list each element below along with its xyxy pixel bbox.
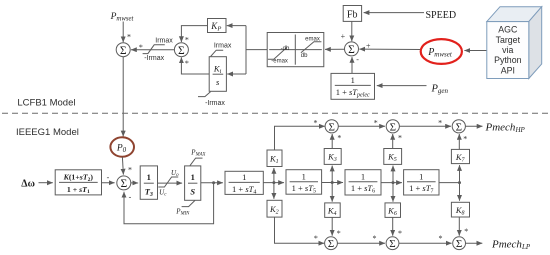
summer S4 — [345, 42, 359, 56]
svg-text:*: * — [185, 35, 189, 44]
summer S3 — [117, 176, 131, 190]
svg-text:1: 1 — [242, 172, 246, 182]
svg-text:Σ: Σ — [348, 44, 355, 56]
wire tap up into K5 — [392, 166, 394, 183]
svg-text:1 + sT4: 1 + sT4 — [232, 184, 256, 196]
wire Pmwset down into sum S1 — [122, 22, 124, 43]
svg-text:*: * — [139, 43, 143, 52]
svg-text:1: 1 — [147, 172, 151, 182]
svg-text:*: * — [185, 59, 189, 68]
svg-text:-: - — [107, 173, 110, 182]
wire Fb to S4 — [351, 21, 353, 41]
limit mark Irmax on integrator top — [211, 50, 224, 56]
block KP gain — [208, 19, 227, 33]
wire Pgen to Tpelec block — [377, 85, 427, 87]
svg-text:1: 1 — [351, 75, 355, 85]
limit mark PMAX — [190, 158, 203, 166]
block Fb — [343, 6, 361, 22]
wire K5 output up to HP summer 2 — [392, 134, 394, 149]
summer HP3 — [452, 120, 465, 134]
block K8 — [451, 202, 469, 217]
junction K3/K4 tap — [331, 181, 334, 184]
wire tap up into K3 — [331, 166, 333, 183]
svg-text:1 + sT7: 1 + sT7 — [409, 183, 433, 195]
junction K5/K6 tap — [392, 181, 395, 184]
svg-text:Σ: Σ — [328, 238, 334, 250]
wire delta-omega to lead-lag block — [39, 182, 53, 184]
svg-text:SPEED: SPEED — [426, 10, 457, 21]
svg-text:*: * — [463, 135, 467, 144]
svg-text:LCFB1 Model: LCFB1 Model — [17, 97, 75, 108]
block 1/(1+sTpelec) — [331, 73, 375, 99]
junction K7/K8 tap — [458, 181, 461, 184]
block 1/(1+sT6) — [345, 170, 381, 195]
wire T5 to T6 with K3/K4 tap — [322, 182, 343, 184]
svg-text:1 + sT1: 1 + sT1 — [67, 185, 90, 195]
svg-text:*: * — [398, 133, 402, 142]
wire P0 to sum S3 — [122, 157, 123, 175]
svg-text:Irmax: Irmax — [214, 42, 232, 49]
svg-text:Σ: Σ — [178, 45, 185, 57]
block K2 — [267, 200, 282, 217]
wire SPEED to Fb — [364, 12, 424, 14]
wire T7 to K7/K8 tap — [439, 182, 460, 184]
wire tap down into K6 — [392, 183, 394, 202]
svg-text:*: * — [438, 118, 442, 127]
wire lead-lag block to S3 — [102, 182, 115, 184]
wire K6 output down to LP summer 2 — [392, 217, 394, 235]
svg-text:-db: -db — [281, 46, 290, 52]
wire Tpelec block to S4 bottom — [351, 57, 353, 73]
block 1/(1+sT5) — [286, 170, 322, 195]
block 1/S integrator — [185, 166, 201, 200]
svg-text:via: via — [502, 45, 513, 55]
svg-text:+: + — [341, 32, 346, 41]
wire K2 output to LP summer 1 — [275, 217, 325, 243]
block 1/(1+sT4) — [225, 171, 263, 195]
svg-text:*: * — [337, 133, 341, 142]
svg-text:*: * — [439, 234, 443, 243]
svg-text:-: - — [129, 193, 132, 202]
summer LP1 — [325, 237, 338, 250]
svg-text:Σ: Σ — [456, 121, 462, 133]
wire HP2 to HP3 — [399, 125, 451, 127]
rate limiter Uo/Uc symbol — [158, 177, 178, 187]
block K5 — [384, 149, 402, 165]
svg-text:Target: Target — [496, 35, 521, 45]
wire HP3 to output PmechHP — [465, 125, 482, 127]
svg-text:Python: Python — [494, 55, 521, 65]
junction feedback tap — [212, 181, 215, 184]
summer HP2 — [386, 120, 399, 134]
svg-text:Δω: Δω — [21, 178, 35, 189]
wire tap down into K2 — [273, 183, 275, 199]
wire KP output to S2 top — [181, 26, 207, 42]
limiter Irmax symbol on wire — [143, 45, 165, 54]
svg-text:Fb: Fb — [347, 9, 358, 20]
block K7 — [451, 149, 469, 163]
svg-text:*: * — [314, 118, 318, 127]
svg-text:Σ: Σ — [390, 121, 396, 133]
wire K7 output up to HP summer 3 — [458, 134, 460, 149]
wire 1/T3 to integrator with rate limiter — [158, 182, 183, 184]
svg-text:Σ: Σ — [328, 121, 334, 133]
wire feedback from integrator output to S3 bottom — [124, 183, 214, 224]
highlight ellipse P0 (dark red) — [110, 137, 134, 156]
svg-text:-Irmax: -Irmax — [205, 100, 225, 107]
block KI/s integrator — [209, 57, 226, 92]
svg-text:*: * — [337, 229, 341, 238]
wire S1 output down to P0 — [122, 57, 124, 137]
svg-text:*: * — [374, 118, 378, 127]
svg-text:1 + sT5: 1 + sT5 — [292, 183, 316, 195]
wire tap down into K8 — [459, 183, 461, 201]
svg-text:AGC: AGC — [498, 25, 518, 35]
wire T6 to T7 with K5/K6 tap — [381, 182, 402, 184]
svg-text:*: * — [464, 227, 468, 236]
block K6 — [385, 203, 401, 218]
svg-text:1 + sT6: 1 + sT6 — [351, 183, 375, 195]
svg-text:Σ: Σ — [120, 178, 127, 190]
wire HP1 to HP2 — [338, 125, 385, 127]
svg-text:IEEEG1 Model: IEEEG1 Model — [16, 127, 79, 138]
wire LP3 to output PmechLP — [466, 242, 483, 244]
block 1/(1+sT7) — [404, 170, 439, 195]
svg-text:Irmax: Irmax — [155, 38, 173, 45]
wire tap up into K7 — [459, 165, 461, 183]
wire K3 output up to HP summer 1 — [331, 134, 333, 149]
svg-text:1: 1 — [302, 171, 306, 181]
highlight ellipse Pmwset (red) — [421, 39, 462, 64]
summer LP2 — [386, 237, 399, 250]
svg-text:1: 1 — [361, 171, 365, 181]
AGC 3D box — [487, 7, 542, 79]
limit mark PMIN — [182, 200, 195, 206]
summer S2 — [174, 43, 188, 57]
wire tap down into K4 — [331, 183, 333, 202]
block K1 — [267, 150, 282, 167]
wire KI output to S2 bottom — [181, 57, 209, 74]
wire Pmwset ellipse to S4 — [359, 48, 420, 50]
wire LP2 to LP3 — [399, 242, 452, 244]
svg-text:*: * — [373, 234, 377, 243]
wire S4 output to deadband — [325, 48, 345, 50]
svg-text:*: * — [398, 229, 402, 238]
summer LP3 — [453, 237, 466, 250]
block K4 — [325, 203, 341, 218]
svg-text:+: + — [366, 41, 371, 50]
svg-text:Σ: Σ — [389, 238, 395, 250]
svg-text:API: API — [501, 65, 515, 75]
svg-text:S: S — [190, 187, 195, 197]
svg-text:P0: P0 — [116, 144, 127, 155]
block deadband — [267, 33, 324, 67]
block K3 — [324, 149, 341, 165]
wire K4 output down to LP summer 1 — [331, 217, 333, 235]
wire tap up into K1 — [273, 168, 275, 183]
wire integrator output to T4 block — [201, 182, 223, 184]
svg-text:-: - — [356, 55, 359, 64]
svg-text:-Irmax: -Irmax — [144, 55, 164, 62]
svg-text:-emax: -emax — [271, 59, 288, 65]
svg-text:Σ: Σ — [120, 45, 127, 57]
wire K8 output down to LP summer 3 — [458, 217, 460, 236]
junction K1/K2 tap — [272, 181, 275, 184]
svg-text:1: 1 — [419, 171, 423, 181]
boundary dashed line — [2, 112, 550, 114]
limit mark -Irmax on integrator bottom — [198, 92, 211, 97]
wire T4 to T5 with K1/K2 tap — [263, 182, 284, 184]
svg-text:*: * — [127, 33, 131, 42]
svg-text:emax: emax — [305, 36, 320, 42]
wire S3 to 1/T3 block — [131, 182, 138, 184]
wire LP1 to LP2 — [337, 242, 385, 244]
svg-text:Σ: Σ — [456, 238, 462, 250]
summer HP1 — [325, 120, 338, 134]
wire deadband output split to KP and KI — [246, 49, 267, 51]
summer S1 — [116, 43, 130, 57]
svg-text:1: 1 — [191, 172, 195, 182]
wire S2 output to S1 through limiter — [131, 49, 174, 51]
svg-text:*: * — [314, 234, 318, 243]
wire K1 output to HP summer 1 — [275, 126, 325, 150]
wire AGC box to Pmwset ellipse — [464, 50, 486, 52]
svg-text:*: * — [128, 166, 132, 175]
block 1/T3 — [140, 166, 157, 199]
svg-text:db: db — [301, 53, 308, 59]
block K(1+sT2)/(1+sT1) — [55, 170, 101, 195]
